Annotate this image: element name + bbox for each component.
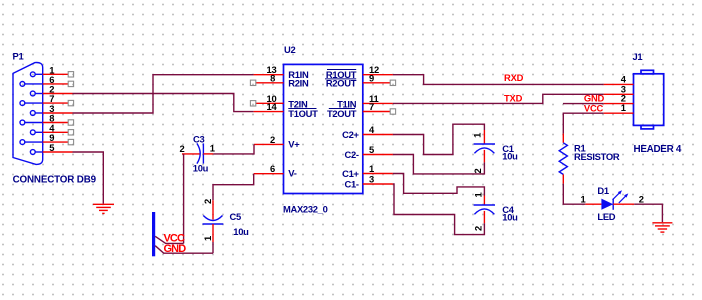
P1 pin 3 stub <box>43 112 73 114</box>
svg-text:9: 9 <box>369 72 374 83</box>
svg-text:U2: U2 <box>284 44 295 55</box>
svg-text:C2-: C2- <box>344 149 358 160</box>
ground symbol at D1 <box>652 223 672 232</box>
capacitor C1 bottom lead <box>483 150 485 163</box>
capacitor C5 curved plate <box>203 216 222 221</box>
U2 pin 9 no-connect square <box>390 80 395 85</box>
P1 pin 9 circle <box>20 140 43 145</box>
svg-text:2: 2 <box>179 143 184 154</box>
P1 pin 4 no-connect square <box>68 130 73 135</box>
U2 pin 11 stub <box>363 102 393 104</box>
svg-text:R2IN: R2IN <box>288 77 309 88</box>
svg-text:MAX232_0: MAX232_0 <box>283 203 328 214</box>
U2 pin 13 stub <box>254 74 284 76</box>
svg-text:HEADER 4: HEADER 4 <box>634 144 682 155</box>
U2 pin 7 stub <box>363 111 390 113</box>
U2 pin 10 no-connect square <box>250 101 255 106</box>
svg-text:8: 8 <box>270 72 275 83</box>
wire U2 pin 11 to J1 pin 3 TXD <box>393 94 604 103</box>
LED D1 emission arrow 2 <box>619 193 629 203</box>
header J1 bottom tab <box>641 125 654 128</box>
svg-text:1: 1 <box>210 142 215 153</box>
J1 pin 3 stub <box>604 93 634 95</box>
C3 pin 2 stub <box>182 153 200 155</box>
svg-text:6: 6 <box>270 163 275 174</box>
LED D1 emission arrow 1 <box>613 190 623 200</box>
svg-text:10u: 10u <box>502 151 518 162</box>
svg-text:14: 14 <box>266 101 277 112</box>
P1 pin 7 no-connect square <box>68 100 73 105</box>
svg-text:TXD: TXD <box>504 93 523 104</box>
U2 pin 6 stub V- <box>254 173 284 175</box>
wire C5 pin 1 to GND point <box>212 242 214 253</box>
U2 pin name T1IN underline <box>329 108 355 110</box>
wire P1 pin 2 to U2 pin 14 <box>73 94 254 112</box>
wire P1 pin 5 to ground <box>73 152 104 204</box>
svg-text:T2OUT: T2OUT <box>327 108 357 119</box>
U2 pin 14 stub <box>254 111 284 113</box>
capacitor C1 curved plate <box>474 148 494 153</box>
P1 pin 5 stub <box>43 151 73 153</box>
ground symbol at P1 pin 5 <box>93 204 114 213</box>
power tap bar <box>152 212 155 256</box>
U2 pin 5 stub <box>363 154 393 156</box>
C5 pin 1 lead <box>212 224 214 242</box>
svg-text:R2OUT: R2OUT <box>326 77 357 88</box>
C3 pin 1 stub <box>203 153 213 155</box>
svg-text:VCC: VCC <box>584 102 604 113</box>
U2 pin 9 stub <box>363 82 390 84</box>
wire U2 pin 4 to C1 top <box>393 124 485 154</box>
P1 pin 8 stub <box>43 122 68 124</box>
svg-text:1: 1 <box>621 102 626 113</box>
resistor R1 bottom lead <box>562 174 564 183</box>
svg-text:T1OUT: T1OUT <box>288 108 318 119</box>
svg-text:C1+: C1+ <box>342 168 359 179</box>
capacitor C4 bottom lead <box>483 211 485 223</box>
U2 pin 1 stub <box>363 173 393 175</box>
svg-text:C1-: C1- <box>344 179 358 190</box>
svg-text:1: 1 <box>202 236 213 241</box>
header J1 top tab <box>641 70 654 74</box>
P1 pin 1 no-connect square <box>68 72 73 77</box>
C5 pin 2 lead <box>212 200 214 219</box>
P1 pin 2 circle <box>30 91 42 96</box>
wire C3 pin 2 down to VCC point <box>183 154 185 244</box>
resistor R1 body <box>559 143 567 175</box>
svg-text:C2+: C2+ <box>342 129 359 140</box>
svg-text:10u: 10u <box>233 226 249 237</box>
P1 pin 9 no-connect square <box>68 139 73 144</box>
P1 pin 1 stub <box>43 73 68 75</box>
U2 pin 10 stub <box>256 102 284 104</box>
LED D1 triangle <box>601 199 613 210</box>
U2 pin 12 stub <box>363 74 393 76</box>
svg-text:3: 3 <box>369 174 374 185</box>
svg-text:2: 2 <box>472 168 483 173</box>
svg-text:RXD: RXD <box>504 72 524 83</box>
P1 pin 8 no-connect square <box>68 120 73 125</box>
wire R1 to LED D1 <box>563 184 585 205</box>
wire P1 pin 3 to U2 pin 13 <box>73 75 254 113</box>
U2 pin 4 stub <box>363 134 393 136</box>
svg-text:2: 2 <box>202 199 213 204</box>
svg-text:V-: V- <box>288 167 296 178</box>
U2 pin 3 stub <box>363 183 393 185</box>
svg-text:C5: C5 <box>230 211 241 222</box>
svg-text:10u: 10u <box>193 162 209 173</box>
svg-text:GND: GND <box>164 243 187 255</box>
P1 pin 4 circle <box>30 130 42 135</box>
wire C1 bottom to U2 pin 5 <box>393 155 485 174</box>
svg-text:J1: J1 <box>633 51 643 62</box>
P1 pin 7 circle <box>20 101 43 106</box>
P1 pin 1 circle <box>30 72 42 77</box>
capacitor C1 top lead <box>483 130 485 144</box>
capacitor C1 flat plate <box>474 143 495 145</box>
wire VCC from bar <box>155 236 183 243</box>
svg-text:1: 1 <box>369 163 374 174</box>
capacitor C4 flat plate <box>474 204 495 206</box>
P1 pin 7 stub <box>43 102 68 104</box>
P1 pin 9 stub <box>43 141 68 143</box>
P1 pin 3 circle <box>30 111 42 116</box>
capacitor C3 curved plate <box>197 143 200 163</box>
U2 pin 7 no-connect square <box>390 109 395 114</box>
capacitor C4 top lead <box>483 196 485 205</box>
P1 pin 8 circle <box>20 120 43 125</box>
wire J1 pin 1 to R1 VCC <box>563 113 603 133</box>
J1 pin 2 stub <box>604 103 634 105</box>
svg-text:7: 7 <box>369 101 374 112</box>
resistor R1 top lead <box>562 134 564 143</box>
svg-text:P1: P1 <box>13 50 24 61</box>
wire U2 pin 12 to J1 pin 4 RXD <box>393 75 604 85</box>
P1 pin 5 circle <box>30 150 42 155</box>
svg-text:2: 2 <box>639 194 644 205</box>
P1 pin 6 stub <box>43 83 68 85</box>
wire C4 bottom to U2 pin 3 <box>393 184 485 235</box>
connector P1 body <box>13 63 43 165</box>
svg-text:RESISTOR: RESISTOR <box>574 151 620 162</box>
capacitor C4 curved plate <box>474 209 494 214</box>
U2 pin name T2IN underline <box>288 108 316 110</box>
svg-text:2: 2 <box>270 134 275 145</box>
wire D1 to ground <box>634 204 662 222</box>
U2 pin name R1OUT overline <box>327 69 356 71</box>
J1 pin 1 stub <box>604 112 634 114</box>
P1 pin 4 stub <box>43 131 68 133</box>
wire GND stub to J1 pin 2 <box>563 103 604 105</box>
P1 pin 6 no-connect square <box>68 81 73 86</box>
svg-text:2: 2 <box>473 226 484 231</box>
IC U2 body <box>284 64 363 193</box>
svg-text:D1: D1 <box>597 185 608 196</box>
U2 pin 8 no-connect square <box>250 80 255 85</box>
header J1 body <box>634 74 664 126</box>
D1 anode lead <box>585 203 601 205</box>
U2 pin name R1OUT underline <box>325 78 356 80</box>
svg-text:5: 5 <box>369 144 374 155</box>
J1 pin 4 stub <box>604 83 634 85</box>
wire C3 pin 1 to U2 V+ <box>213 144 254 154</box>
svg-text:1: 1 <box>472 133 483 138</box>
U2 pin 2 stub V+ <box>254 143 284 145</box>
wire U2 V- to C5 <box>213 174 254 201</box>
D1 cathode lead <box>613 203 634 205</box>
svg-text:LED: LED <box>597 211 615 222</box>
svg-text:10u: 10u <box>502 212 518 223</box>
wire GND from bar <box>155 246 213 254</box>
svg-text:1: 1 <box>473 192 484 197</box>
capacitor C3 flat plate <box>202 143 204 163</box>
svg-text:CONNECTOR DB9: CONNECTOR DB9 <box>13 174 97 185</box>
LED D1 cathode bar <box>612 199 614 210</box>
U2 pin 8 stub <box>256 82 284 84</box>
P1 pin 2 stub <box>43 93 73 95</box>
capacitor C5 flat plate <box>203 223 224 225</box>
wire U2 pin 1 to C4 top <box>393 174 485 196</box>
P1 pin 6 circle <box>20 82 43 87</box>
svg-text:1: 1 <box>580 194 585 205</box>
svg-text:C3: C3 <box>193 133 204 144</box>
svg-text:V+: V+ <box>288 139 300 150</box>
